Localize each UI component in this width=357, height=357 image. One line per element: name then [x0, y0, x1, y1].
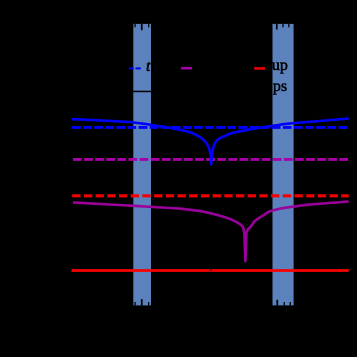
legend entry 3 handle: red dash [254, 67, 265, 70]
legend entry 1 handle: blue dash B [136, 67, 141, 69]
blue dashed horizontal line (upper reference level) [72, 126, 349, 129]
legend entry 4 handle: black solid line over left band [126, 91, 152, 93]
magenta dashed horizontal line (middle reference level) [73, 158, 349, 161]
shaded band left (pause window 1) [133, 24, 151, 306]
legend entry 2 handle: magenta dash [181, 67, 192, 70]
x-axis bottom major tick under left band [141, 299, 143, 305]
svg-text:t: t [146, 58, 151, 75]
red dashed horizontal line (lower reference level) [72, 194, 349, 197]
svg-text:ops: ops [265, 78, 287, 95]
legend entry 1 handle: blue dash A [129, 67, 134, 69]
red solid horizontal line (ground level) [72, 269, 349, 272]
shaded band right (pause window 2) [273, 24, 294, 306]
dark break on red solid line at center [210, 269, 212, 271]
svg-text:up: up [272, 57, 288, 74]
x-axis top minor tick over right band [282, 24, 283, 27]
x-axis bottom minor tick under right band [284, 302, 285, 305]
x-axis bottom major tick under right band [276, 300, 278, 306]
x-axis bottom minor tick under left band [134, 302, 135, 305]
x-axis top minor tick over left band [134, 24, 135, 27]
x-axis top major tick over right band [276, 24, 278, 30]
purple solid gap curve with minimum notch [73, 202, 349, 262]
x-axis top minor tick over left band (2nd) [148, 24, 149, 27]
blue solid gap curve with minimum notch [72, 119, 349, 165]
x-axis top major tick over left band [141, 24, 143, 30]
x-axis bottom minor tick under left band (2nd) [148, 302, 149, 305]
x-axis bottom minor tick under right band (2nd) [290, 302, 291, 305]
x-axis top minor tick over right band (2nd) [288, 24, 289, 27]
